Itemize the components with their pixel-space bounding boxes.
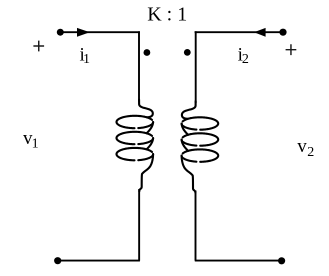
svg-text:1: 1: [83, 52, 90, 67]
svg-text:v: v: [297, 136, 307, 157]
svg-text:2: 2: [242, 52, 249, 67]
svg-text:K : 1: K : 1: [147, 4, 187, 26]
svg-text:2: 2: [307, 145, 314, 160]
svg-text:1: 1: [32, 137, 39, 152]
